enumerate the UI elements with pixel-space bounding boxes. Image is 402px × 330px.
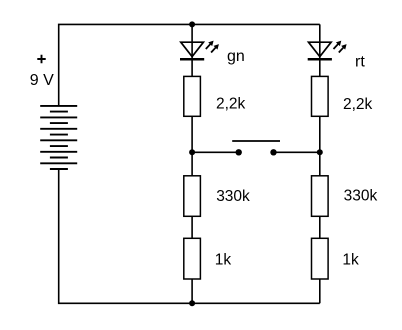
resistor R4 330k right box: [312, 176, 329, 217]
LED D2 light arrow 1: [334, 41, 342, 49]
wire right branch vertical: [319, 24, 321, 303]
svg-text:9 V: 9 V: [30, 72, 54, 89]
svg-text:rt: rt: [355, 54, 365, 71]
switch S1 contact dot right: [270, 149, 276, 155]
svg-text:330k: 330k: [216, 188, 250, 205]
svg-text:1k: 1k: [215, 252, 232, 269]
wire bottom rail: [59, 169, 320, 303]
svg-text:2,2k: 2,2k: [343, 96, 373, 113]
junction dot top: [189, 21, 195, 27]
junction dot bottom: [189, 300, 195, 306]
LED D2 cathode bar: [308, 58, 332, 61]
LED D1 cathode bar: [180, 58, 204, 61]
switch S1 wire right: [274, 151, 320, 153]
switch S1 contact dot left: [236, 149, 242, 155]
wire top rail: [59, 24, 320, 106]
LED D1 light arrow 1: [206, 41, 214, 49]
LED D1 light arrow 2: [211, 44, 219, 52]
switch S1 actuator bar: [232, 140, 280, 142]
LED D2 red triangle: [309, 42, 332, 56]
battery B1 9V: [40, 106, 77, 169]
resistor R6 1k right box: [312, 238, 329, 279]
svg-text:2,2k: 2,2k: [216, 96, 246, 113]
svg-text:1k: 1k: [342, 252, 359, 269]
resistor R2 2,2k right box: [312, 76, 329, 116]
svg-text:gn: gn: [227, 48, 245, 65]
junction dot switch right rail: [317, 149, 323, 155]
resistor R5 1k left box: [184, 238, 201, 279]
battery plus sign: [37, 55, 45, 63]
LED D2 light arrow 2: [339, 44, 347, 52]
resistor R3 330k left box: [184, 176, 201, 217]
svg-text:330k: 330k: [344, 188, 378, 205]
junction dot switch left rail: [189, 149, 195, 155]
resistor R1 2,2k left box: [184, 76, 201, 116]
switch S1 wire left: [192, 151, 239, 153]
wire left branch vertical: [191, 24, 193, 303]
LED D1 green triangle: [181, 42, 204, 56]
